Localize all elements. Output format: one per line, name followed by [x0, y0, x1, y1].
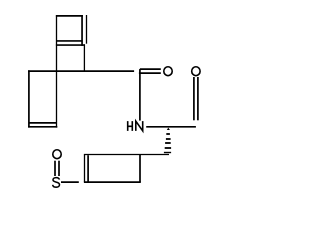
wire: ring C left edge: [84, 155, 86, 183]
node: sulfur label S: [53, 178, 60, 188]
wire: amide C-N vertical bond: [139, 69, 141, 121]
wire: S-C bond: [61, 181, 79, 183]
wire: amide C=O lower line: [139, 72, 161, 74]
node: amide oxygen label O: [164, 67, 172, 76]
wire: ring A right edge double bond main line: [81, 15, 83, 46]
wire: ring A right edge double bond outer line: [86, 15, 88, 44]
wire: aldehyde C=O left line: [193, 77, 195, 120]
wire: ring A top bond: [56, 15, 83, 17]
wire: S=O double bond right line: [58, 161, 60, 176]
node: hashed wedge dash 2: [166, 133, 170, 135]
wire: ring C right edge: [139, 155, 141, 183]
wire: N-CH stereocenter bond: [146, 126, 196, 128]
node: hashed wedge dash 3: [166, 138, 171, 140]
wire: S=O double bond left line: [54, 161, 56, 176]
wire: ring C left double bond inner line: [87, 155, 89, 182]
wire: ring B bottom double bond inner line: [29, 122, 57, 124]
wire: bond descending from ring A to chain: [83, 44, 85, 72]
wire: ring A left edge / ring B right edge vertical: [56, 15, 58, 128]
wire: ring B left edge: [28, 70, 30, 127]
wire: main chain horizontal bond: [28, 70, 134, 72]
node: hashed wedge dash 5: [165, 147, 171, 149]
wire: ring B bottom edge: [28, 126, 57, 128]
wire: ring A bottom edge: [56, 44, 85, 46]
node: hashed wedge dash 4: [165, 142, 171, 144]
wire: ring C top edge and CH2 bond: [84, 154, 169, 156]
node: amide nitrogen label N: [136, 121, 143, 131]
wire: aldehyde C=O right line: [197, 77, 199, 120]
node: hashed wedge apex triangle: [167, 128, 170, 130]
node: hashed wedge dash 6: [164, 152, 171, 154]
wire: ring A bottom double bond inner line: [56, 40, 83, 42]
node: sulfinyl oxygen label O: [53, 150, 61, 159]
wire: amide C=O upper line: [140, 68, 161, 70]
wire: ring C bottom edge: [84, 181, 141, 183]
node: amide nitrogen label H: [128, 121, 133, 131]
node: aldehyde oxygen label O: [192, 67, 200, 76]
